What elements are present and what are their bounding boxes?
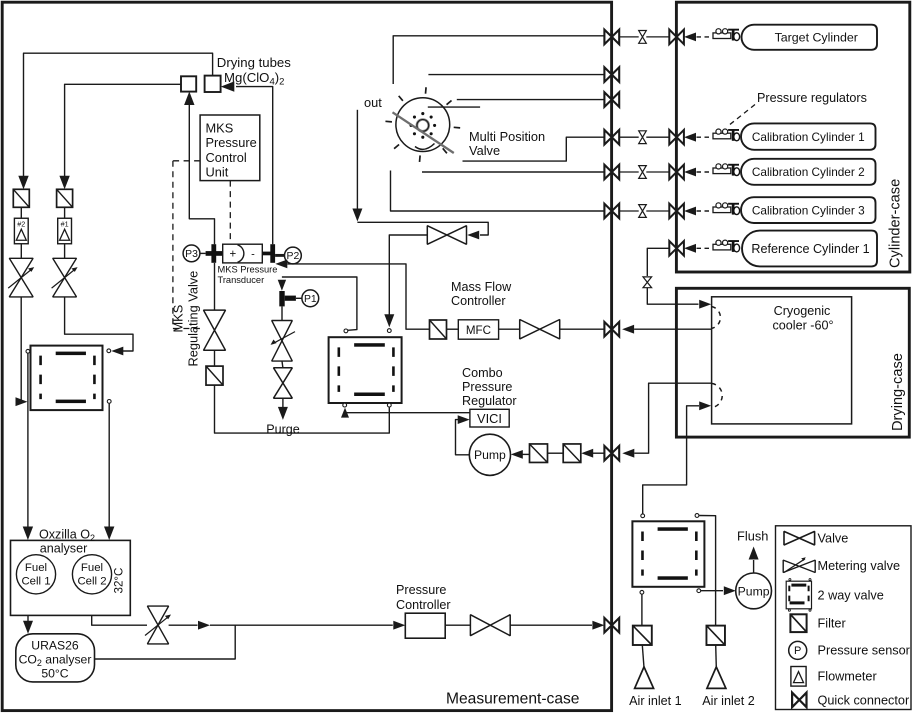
arrow into VICI (458, 415, 470, 424)
port V2 top-left (344, 329, 348, 333)
dashed pigtail (Target Cylinder) (697, 36, 711, 38)
port V2 top-right (387, 329, 391, 333)
svg-text:Drying-case: Drying-case (890, 353, 906, 431)
svg-text:Filter: Filter (818, 616, 847, 630)
port V2 bottom-right (387, 403, 391, 407)
port V3 bottom-right (697, 589, 701, 593)
wire regulating valve column up to drying tube (189, 105, 214, 245)
svg-text:Unit: Unit (206, 165, 229, 180)
URAS26 analyser box (16, 634, 95, 682)
legend flowmeter icon (791, 667, 806, 687)
wire tee to metering valve purge (281, 306, 283, 320)
pump right (736, 573, 772, 609)
svg-text:Controller: Controller (451, 294, 506, 308)
wire P3 stub (200, 252, 206, 254)
port V3 top-left (641, 514, 645, 518)
wire MPV port row2 (428, 74, 604, 76)
transducer plus membrane (238, 245, 244, 262)
flowmeter #2 (14, 218, 28, 244)
svg-text:Quick connector: Quick connector (818, 694, 910, 708)
wire tee to P1 (296, 297, 302, 299)
fuel cell 2 (72, 555, 111, 594)
valve at cylinder-case edge (Reference Cylinder 1) (669, 241, 684, 256)
wire bar to P2 (275, 254, 284, 257)
wire metering to edge valve target row (646, 36, 669, 38)
svg-text:Transducer: Transducer (218, 275, 265, 285)
arrow into Oxzilla left (23, 527, 33, 541)
wire metering to edge valve calibration 2 row (646, 171, 669, 173)
svg-text:MKS: MKS (206, 121, 234, 136)
wire filter F5 to pump (523, 453, 530, 455)
filter F6 (563, 444, 581, 463)
quick connector calibration 2 row (604, 165, 619, 180)
wire F8 to air inlet 2 (715, 645, 718, 667)
arrow into QC PC row (592, 621, 604, 630)
wire V3 bottom-right to pump (701, 590, 723, 592)
wire V1 to Oxzilla left (27, 354, 29, 527)
wire junction to pressure controller (210, 624, 393, 626)
svg-text:Multi Position: Multi Position (469, 129, 545, 144)
wire MPV port row3 (457, 99, 605, 101)
pressure regulator (Reference Cylinder 1) (713, 240, 740, 252)
quick connector spare row 3 (604, 92, 619, 107)
arrow into filter F2 column (18, 176, 28, 190)
svg-text:Valve: Valve (469, 143, 500, 158)
wire MPV port to calibration cylinder 1 (463, 137, 605, 161)
valve after MPV out (427, 226, 466, 245)
wire drying-tube sq1 to flowmeter #1 column (65, 84, 181, 186)
valve MFC row (520, 320, 560, 339)
svg-text:Pressure: Pressure (462, 380, 512, 394)
MKS Pressure Control Unit box (200, 115, 260, 181)
wire V3 top-left to cooler (643, 406, 699, 514)
arrow into pressure controller (393, 621, 405, 630)
metering valve target row (639, 31, 647, 44)
2 way valve V3 (632, 521, 704, 587)
arrow into valve V-top (467, 231, 479, 240)
legend 2 way valve icon (786, 581, 811, 609)
dashed pigtail (Reference Cylinder 1) (697, 247, 711, 249)
valve purge branch (274, 368, 293, 398)
wire V2 top-left port to P1 branch (282, 277, 357, 330)
arrow into cooler top inlet (699, 300, 711, 309)
wire valve to QC PC row (510, 624, 592, 626)
metering valve col2 (53, 258, 77, 297)
wire URAS26 return (95, 625, 236, 659)
port V2 bottom-left (343, 403, 347, 407)
arrow into transducer node from MFC line (275, 260, 287, 269)
pressure sensor P2 (285, 247, 302, 264)
MKS pressure transducer box (223, 244, 263, 263)
arrow from regulator into valve (Reference Cylinder 1) (684, 244, 696, 253)
wire out to valve V-top (357, 222, 488, 235)
svg-text:Air inlet 2: Air inlet 2 (702, 694, 755, 708)
Oxzilla O2 analyser box (11, 540, 131, 615)
svg-text:MFC: MFC (466, 324, 491, 337)
stub transducer to flange bar (262, 252, 271, 256)
wire V3 bottom-left to filter F7 (641, 595, 643, 626)
svg-text:Metering valve: Metering valve (818, 559, 901, 573)
wire pump to flush (753, 560, 755, 573)
pump left (469, 434, 510, 475)
wire col2 to 2-way valve V1 top-right (65, 297, 133, 351)
svg-text:Air inlet 1: Air inlet 1 (629, 694, 682, 708)
arrow down to P1 tee (278, 280, 286, 291)
quick connector pump row (604, 446, 619, 461)
legend filter icon (790, 614, 806, 632)
wire valve to quick connector MFC row (560, 328, 605, 330)
wire F3 to 2-way valve V2 bottom-right (215, 385, 390, 433)
MPV rotation arc (415, 144, 435, 150)
wire transducer to drying tube right (236, 87, 273, 245)
svg-text:#2: #2 (17, 219, 25, 228)
wire QC to F6 (593, 452, 604, 454)
cooler inlet arc bottom (712, 383, 723, 407)
valve at cylinder-case edge (Calibration Cylinder 2) (669, 165, 684, 180)
cylinder Calibration Cylinder 1 (741, 123, 875, 149)
svg-text:2 way valve: 2 way valve (818, 588, 884, 602)
filter F3 (206, 366, 223, 385)
legend metering valve icon (783, 560, 815, 572)
svg-text:Calibration Cylinder 1: Calibration Cylinder 1 (752, 130, 865, 144)
svg-text:Combo: Combo (462, 366, 503, 380)
valve at cylinder-case edge (Target Cylinder) (669, 30, 684, 45)
svg-text:URAS26: URAS26 (31, 639, 79, 653)
cylinder Calibration Cylinder 2 (741, 159, 875, 185)
arrow into cooler bottom inlet (699, 401, 711, 410)
cylinder Calibration Cylinder 3 (741, 197, 875, 223)
arrow from regulator into valve (Calibration Cylinder 1) (684, 133, 696, 142)
wire MFC riser (287, 264, 429, 329)
Measurement-case enclosure (2, 2, 611, 710)
filter F8 air inlet 2 (706, 626, 725, 645)
svg-text:Target Cylinder: Target Cylinder (775, 31, 858, 45)
callout line pressure regulators (728, 105, 755, 127)
quick connector calibration 1 row (604, 130, 619, 145)
wire VICI to V2 bottom-left port (345, 412, 470, 414)
svg-text:Valve: Valve (818, 532, 849, 546)
arrow from regulator into valve (Calibration Cylinder 3) (684, 207, 696, 216)
pressure sensor P3 (183, 245, 200, 262)
filter F4 (430, 320, 447, 339)
MPV pointer (393, 112, 454, 153)
arrow into 2-way valve V1 left (16, 397, 28, 406)
svg-text:P2: P2 (287, 251, 300, 262)
metering valve calibration 1 row (639, 131, 647, 144)
wire MPV port stub (428, 106, 480, 108)
metering valve calibration 2 row (639, 166, 647, 179)
metering valve reference line (643, 277, 652, 288)
arrow left into drying tube right (221, 81, 235, 91)
legend pressure sensor icon (789, 641, 807, 659)
port V1 top-left (26, 349, 30, 353)
pressure regulator (Calibration Cylinder 2) (713, 164, 740, 176)
Cylinder-case enclosure (676, 2, 909, 272)
dashed pigtail (Calibration Cylinder 2) (697, 171, 711, 173)
blind flange bar right of transducer (270, 244, 275, 263)
MFC box (458, 320, 498, 339)
arrow into F6 (581, 449, 593, 458)
svg-text:Pump: Pump (474, 448, 506, 462)
svg-text:Measurement-case: Measurement-case (446, 691, 579, 708)
wire MPV port to calibration cylinder 2 (422, 171, 604, 173)
svg-text:Controller: Controller (396, 598, 451, 612)
fuel cell 1 (16, 555, 55, 594)
wire V3 top-right to air inlet 2 line (699, 516, 715, 626)
svg-text:P3: P3 (185, 249, 198, 260)
wire reference cylinder to cooler (647, 248, 669, 276)
svg-text:32°C: 32°C (112, 568, 125, 594)
svg-text:Calibration Cylinder 2: Calibration Cylinder 2 (752, 165, 865, 179)
filter F5 (530, 444, 548, 463)
cylinder Target Cylinder (742, 25, 877, 50)
cooler inlet arc top (712, 307, 721, 329)
wire Oxzilla to URAS26 (27, 615, 29, 629)
svg-text:out: out (364, 95, 382, 110)
pressure sensor P1 (302, 290, 319, 307)
cross fitting at P3 (211, 244, 216, 263)
svg-text:MKS Pressure: MKS Pressure (218, 265, 278, 275)
arrow into QC pump row (622, 449, 634, 458)
valve at cylinder-case edge (Calibration Cylinder 1) (669, 130, 684, 145)
svg-text:Fuel: Fuel (81, 562, 103, 574)
MPV inner ring (417, 120, 429, 132)
svg-text:Fuel: Fuel (25, 562, 47, 574)
drying tube square left (181, 76, 196, 91)
air inlet 2 funnel (707, 667, 726, 689)
Drying-case enclosure (676, 288, 909, 437)
wire col1 down to 2-way valve V1 (20, 297, 22, 402)
svg-text:Cylinder-case: Cylinder-case (888, 179, 904, 268)
metering valve purge branch (272, 321, 293, 362)
arrow into URAS26 (23, 621, 33, 634)
wire MPV out line (356, 110, 358, 210)
svg-text:Pressure regulators: Pressure regulators (757, 91, 867, 105)
wire QC to metering target row (619, 36, 639, 38)
svg-text:cooler -60°: cooler -60° (772, 319, 833, 333)
wire metering to edge valve calibration 3 row (646, 210, 669, 212)
tee fitting at P1 (279, 291, 284, 306)
arrow up into drying tube left (184, 92, 194, 106)
svg-text:Cell 1: Cell 1 (21, 576, 50, 588)
MPV port dots (433, 124, 436, 127)
svg-text:Control: Control (206, 150, 247, 165)
wire MFC to valve (499, 328, 520, 330)
wire MPV port to target cylinder row (393, 36, 604, 84)
port V3 bottom-left (640, 590, 644, 594)
valve at cylinder-case edge (Calibration Cylinder 3) (669, 204, 684, 219)
wire F5 to F6 (548, 452, 564, 454)
pressure regulator (Calibration Cylinder 3) (713, 203, 740, 215)
svg-text:Purge: Purge (266, 423, 300, 437)
wire cooler to QC pump row (634, 383, 711, 453)
metering valve after Oxzilla (147, 606, 168, 644)
svg-text:+: + (229, 249, 236, 261)
arrow into pump right (724, 586, 736, 595)
svg-text:Regulator: Regulator (462, 394, 517, 408)
wire QC to metering calibration 1 row (619, 136, 639, 138)
svg-text:50°C: 50°C (41, 667, 68, 681)
2 way valve V2 (329, 337, 402, 403)
wire F4 to MFC (447, 328, 459, 330)
wire metering to edge valve calibration 1 row (646, 136, 669, 138)
arrow on line to pressure controller (198, 621, 210, 630)
arrow from regulator into valve (Target Cylinder) (684, 33, 696, 42)
cryogenic cooler box (712, 297, 852, 424)
MPV position ticks (454, 126, 460, 129)
svg-text:MKS: MKS (171, 305, 186, 333)
arrow flush (749, 547, 759, 560)
Pressure Controller box (405, 613, 445, 638)
legend quick connector icon (792, 693, 806, 708)
svg-text:P1: P1 (304, 294, 317, 305)
svg-text:Mass Flow: Mass Flow (451, 280, 512, 294)
svg-text:Drying tubes: Drying tubes (217, 55, 291, 70)
svg-text:Pressure: Pressure (396, 583, 446, 597)
svg-text:Cell 2: Cell 2 (77, 576, 106, 588)
arrow into filter F1 column (59, 176, 69, 190)
cylinder Reference Cylinder 1 (742, 231, 877, 267)
quick connector target row (604, 30, 619, 45)
svg-text:Calibration Cylinder 3: Calibration Cylinder 3 (752, 203, 865, 217)
port V1 bottom-right (107, 400, 111, 404)
svg-text:#1: #1 (61, 219, 69, 228)
wire purge valve down (282, 398, 284, 407)
pressure regulator (Target Cylinder) (713, 29, 740, 41)
MKS regulating valve (204, 310, 226, 350)
filter F7 air inlet 1 (633, 626, 652, 645)
multi position valve body (396, 98, 450, 152)
wire flowmeter to metering valve col2 (64, 207, 66, 218)
wire Oxzilla outlet (92, 615, 147, 625)
svg-text:Pressure sensor: Pressure sensor (818, 644, 911, 658)
quick connector spare row 2 (604, 67, 619, 82)
2 way valve V1 (31, 346, 103, 411)
svg-text:-: - (251, 248, 255, 260)
arrow into Oxzilla right (104, 527, 114, 541)
valve PC row (470, 615, 510, 636)
arrow into V2 top-right port (384, 314, 394, 327)
wire cross to regulating valve (214, 263, 216, 310)
arrow from regulator into valve (Calibration Cylinder 2) (684, 168, 696, 177)
svg-text:Regulating Valve: Regulating Valve (186, 271, 201, 367)
quick connector calibration 3 row (604, 204, 619, 219)
legend box (776, 526, 912, 710)
legend valve icon (784, 531, 815, 545)
wire drying-tube sq2 to flowmeter #2 column (24, 53, 213, 186)
port V3 top-right (695, 514, 699, 518)
dashed pigtail (Calibration Cylinder 1) (697, 136, 711, 138)
arrow into 2-way valve V1 top-right port (111, 347, 123, 356)
wire QC to metering calibration 2 row (619, 171, 639, 173)
flowmeter #1 (58, 218, 72, 244)
wire valve V-top to 2-way valve V2 (389, 235, 427, 315)
arrow purge vent (278, 407, 288, 420)
dashed control line PCU to transducer (229, 181, 231, 244)
filter F1 (57, 189, 73, 207)
drying tube square right (205, 76, 221, 92)
wire metering to junction (169, 624, 198, 626)
arrow into QC MFC row (622, 325, 634, 334)
wire F7 to air inlet 1 (642, 645, 644, 667)
wire flowmeter to metering valve col1 (20, 207, 22, 218)
wire pump to VICI (456, 420, 470, 455)
VICI box (470, 409, 509, 427)
metering valve calibration 3 row (639, 205, 647, 218)
wire metering to cooler inlet (647, 288, 698, 305)
arrow into pump left (511, 450, 523, 459)
svg-text:Pump: Pump (738, 584, 770, 598)
quick connector PC row (604, 618, 619, 633)
pressure regulator (Calibration Cylinder 1) (713, 129, 740, 141)
svg-text:Reference Cylinder 1: Reference Cylinder 1 (751, 242, 869, 256)
wire MPV port to calibration cylinder 3 (391, 171, 605, 212)
wire cooler to QC MFC row (634, 328, 712, 330)
svg-text:Pressure: Pressure (206, 135, 257, 150)
svg-text:P: P (794, 645, 801, 657)
arrow out downward (352, 209, 362, 222)
quick connector MFC row (604, 322, 619, 337)
wire regulating valve to filter F3 (214, 350, 216, 366)
dashed pigtail (Calibration Cylinder 3) (697, 210, 711, 212)
svg-text:VICI: VICI (477, 411, 502, 426)
wire PC to valve (445, 624, 470, 626)
svg-text:Flush: Flush (737, 529, 768, 544)
wire metering to purge valve (281, 361, 284, 368)
air inlet 1 funnel (635, 667, 654, 689)
metering valve col1 (9, 258, 33, 297)
wire QC to metering calibration 3 row (619, 210, 639, 212)
svg-text:Cryogenic: Cryogenic (774, 304, 831, 318)
wire V1 to Oxzilla right (108, 404, 110, 527)
svg-text:Flowmeter: Flowmeter (818, 670, 878, 684)
dashed control line PCU to regulating valve (173, 160, 200, 162)
filter F2 (13, 189, 29, 207)
arrow into V2 bottom-left port (341, 408, 349, 418)
port V1 top-right (107, 349, 111, 353)
svg-text:analyser: analyser (40, 541, 88, 555)
